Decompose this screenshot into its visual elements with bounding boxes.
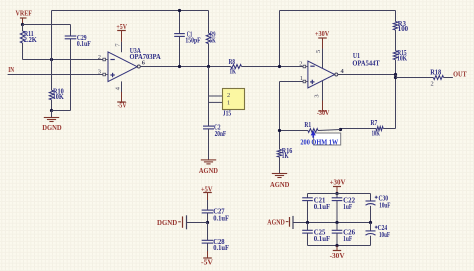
- svg-text:R8: R8: [229, 58, 236, 66]
- ground DGND: [51, 111, 53, 118]
- wire R1 row: [280, 130, 308, 132]
- wire bank bottom rail: [308, 245, 371, 247]
- cursor arrow marker: [311, 130, 316, 135]
- junction VREF node: [21, 23, 24, 26]
- connector J15 body: [223, 89, 245, 110]
- svg-text:VREF: VREF: [16, 10, 33, 18]
- U3A output pin 6 circle: [137, 65, 140, 68]
- ground AGND below R16: [272, 173, 287, 175]
- svg-text:1: 1: [227, 99, 230, 106]
- junction mid colA: [306, 221, 309, 224]
- junction OUT node: [394, 76, 397, 79]
- junction U1 output node: [394, 73, 397, 76]
- wire U3A output row: [140, 66, 231, 68]
- junction R1-R7 node: [339, 128, 342, 131]
- svg-text:0.1uF: 0.1uF: [213, 244, 229, 252]
- svg-text:3: 3: [313, 94, 320, 97]
- resistor R16: [277, 149, 281, 157]
- U3A minus sign: [110, 59, 114, 61]
- wire +5V to C27: [207, 200, 209, 210]
- svg-text:DGND: DGND: [42, 124, 61, 132]
- svg-text:AGND: AGND: [270, 181, 289, 189]
- capacitor C25: [307, 223, 309, 231]
- svg-text:-5V: -5V: [118, 101, 128, 109]
- junction R9 bottom: [207, 65, 210, 68]
- resistor R10: [51, 60, 53, 91]
- U1 output pin 4 circle: [335, 73, 338, 76]
- power -5V below U3A: [121, 92, 123, 102]
- svg-text:2: 2: [98, 54, 101, 61]
- svg-text:AGND: AGND: [267, 219, 285, 227]
- svg-text:2: 2: [431, 80, 434, 87]
- svg-text:200 OHM 1W: 200 OHM 1W: [300, 138, 338, 147]
- wire R18 to OUT: [444, 77, 453, 79]
- wire bank mid rail: [294, 222, 371, 224]
- U3A pin 2 marker: [103, 58, 106, 61]
- svg-text:R1: R1: [304, 121, 311, 129]
- resistor R3: [395, 11, 397, 22]
- U1 plus sign: [310, 81, 314, 83]
- svg-text:DGND: DGND: [157, 219, 177, 227]
- capacitor C21: [307, 194, 309, 198]
- svg-text:10uF: 10uF: [379, 203, 390, 210]
- junction C1 top: [178, 9, 181, 12]
- svg-text:10K: 10K: [397, 55, 408, 63]
- U1 pin 2 marker: [303, 65, 306, 68]
- capacitor C27: [202, 209, 214, 211]
- wire U1 pin1 row: [280, 81, 304, 83]
- svg-text:OUT: OUT: [453, 70, 467, 78]
- junction R10 bottom: [50, 109, 53, 112]
- U3A plus sign: [110, 74, 114, 76]
- svg-text:1K: 1K: [230, 68, 237, 76]
- resistor R15: [393, 51, 397, 60]
- ground AGND below C2: [201, 159, 216, 161]
- resistor R8: [231, 65, 242, 69]
- svg-text:R7: R7: [371, 119, 378, 127]
- junction R1 left node: [278, 129, 281, 132]
- wire R7 row: [341, 128, 377, 130]
- wire OUT row: [396, 77, 434, 79]
- capacitor C1: [179, 11, 181, 34]
- wire DGND to caps: [187, 222, 208, 224]
- svg-text:1: 1: [300, 75, 303, 82]
- svg-text:10K: 10K: [53, 93, 65, 101]
- junction C1 bottom: [178, 65, 181, 68]
- wire top rail left segment: [51, 11, 53, 60]
- svg-text:0.1uF: 0.1uF: [314, 235, 331, 243]
- capacitor C29: [70, 25, 72, 37]
- resistor R1: [308, 129, 318, 133]
- svg-text:IN: IN: [8, 66, 14, 74]
- svg-text:-30V: -30V: [317, 109, 330, 117]
- wire U1 pin 5: [322, 49, 324, 69]
- wire IN row to U3A pin3: [8, 74, 103, 76]
- wire output column: [395, 75, 397, 129]
- wire J15 pin1 stub: [209, 101, 223, 103]
- junction mid colC: [369, 221, 372, 224]
- wire U3A pin2 row: [23, 59, 103, 61]
- svg-text:J15: J15: [223, 110, 232, 118]
- capacitor C30 polarized: [370, 194, 372, 202]
- power -30V bank: [336, 246, 338, 251]
- wire C29 return: [52, 110, 71, 112]
- svg-text:2: 2: [227, 92, 230, 99]
- svg-text:150pF: 150pF: [185, 37, 200, 45]
- svg-text:OPA703PA: OPA703PA: [130, 53, 161, 61]
- svg-text:OPA544T: OPA544T: [352, 60, 380, 68]
- U1 minus sign: [310, 65, 314, 67]
- svg-text:20nF: 20nF: [215, 130, 227, 138]
- junction -30V rail: [335, 244, 338, 247]
- resistor R7: [376, 127, 383, 131]
- svg-text:0.1uF: 0.1uF: [314, 203, 331, 211]
- resistor R9: [208, 11, 210, 34]
- wire bank top rail: [308, 193, 371, 195]
- svg-text:3: 3: [98, 69, 101, 76]
- junction mid colB: [335, 221, 338, 224]
- wire U3A pin 7: [121, 42, 123, 52]
- svg-text:0.1uF: 0.1uF: [213, 214, 229, 222]
- capacitor C2: [203, 125, 214, 127]
- svg-text:0.1uF: 0.1uF: [77, 40, 91, 48]
- svg-text:+30V: +30V: [315, 30, 330, 38]
- svg-text:1uF: 1uF: [343, 235, 352, 243]
- svg-text:5: 5: [315, 50, 322, 53]
- wire U1 pin 3: [322, 81, 324, 101]
- svg-text:R18: R18: [430, 68, 441, 76]
- svg-text:-30V: -30V: [330, 252, 346, 260]
- svg-text:1uF: 1uF: [343, 203, 352, 211]
- op-amp U3A body: [108, 52, 137, 82]
- U1 pin 1 marker: [303, 80, 306, 83]
- svg-text:100: 100: [398, 25, 409, 33]
- op-amp U1 body: [308, 61, 335, 88]
- U3A pin 3 marker: [103, 73, 106, 76]
- svg-text:10K: 10K: [372, 130, 381, 138]
- svg-text:2.2K: 2.2K: [24, 36, 38, 44]
- junction U1 pin2 node: [278, 65, 281, 68]
- svg-text:10uF: 10uF: [379, 232, 390, 239]
- capacitor C28: [207, 223, 209, 241]
- svg-text:2: 2: [299, 60, 302, 67]
- svg-text:AGND: AGND: [199, 167, 218, 175]
- power -30V below U1: [322, 101, 324, 112]
- wire R8 to U1 pin2: [242, 66, 304, 68]
- svg-text:1K: 1K: [282, 152, 289, 160]
- wire J15 pin2 stub: [209, 95, 223, 97]
- capacitor C24 polarized: [370, 223, 372, 231]
- capacitor C26: [336, 223, 338, 231]
- capacitor C22: [336, 194, 338, 198]
- junction DGND bank node: [206, 221, 209, 224]
- junction +30V rail: [335, 192, 338, 195]
- wire J15 column: [208, 67, 210, 127]
- wire VREF row: [23, 24, 71, 26]
- wire top rail right segment: [279, 11, 281, 67]
- svg-text:5K: 5K: [210, 36, 216, 44]
- wire U3A pin 4: [121, 81, 123, 92]
- resistor R18: [433, 76, 443, 80]
- resistor R11: [22, 25, 24, 32]
- wire U1 output row: [338, 74, 396, 76]
- svg-text:+30V: +30V: [330, 178, 347, 186]
- junction pin2 row: [50, 58, 53, 61]
- wire U1 pin1 column: [279, 82, 281, 150]
- svg-text:-5V: -5V: [201, 258, 214, 266]
- value box 200 OHM 1W: [314, 133, 341, 145]
- power -5V bank: [207, 251, 209, 258]
